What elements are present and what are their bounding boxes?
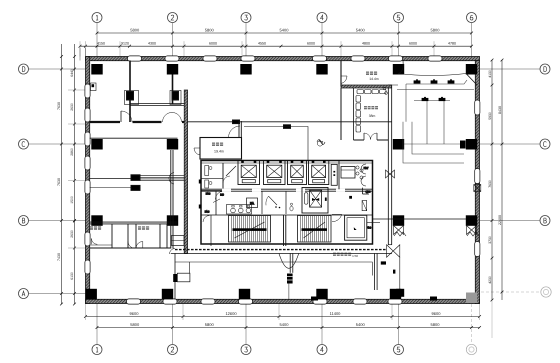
column D6 (466, 64, 477, 75)
window top wall x=172 (165, 56, 179, 61)
ahu room dot (349, 196, 352, 199)
small circles right of desk (356, 166, 359, 169)
east alcove walls (362, 188, 364, 194)
service zone east wall x=390 (388, 85, 391, 245)
machine band marks 2 (267, 160, 270, 163)
svg-text:7630: 7630 (488, 180, 492, 188)
svg-text:5800: 5800 (130, 28, 140, 33)
column A5 (390, 289, 401, 300)
axis line D left (29, 68, 86, 70)
stair 1 handrail (233, 228, 267, 231)
svg-text:4130: 4130 (488, 70, 492, 78)
floor dots (275, 206, 277, 208)
svg-text:12600: 12600 (225, 311, 237, 316)
ceiling device at 434,82 (431, 80, 438, 83)
corridor wall D-zone y=122 (90, 121, 120, 123)
svg-text:6000: 6000 (209, 42, 217, 46)
corridor south wall line (171, 252, 392, 254)
svg-text:FA3: FA3 (206, 192, 211, 195)
lounge south wall y=140 (354, 139, 365, 141)
svg-text:2860: 2860 (70, 148, 74, 156)
elevator shaft 4 (309, 161, 329, 185)
window left wall y=267 (85, 260, 90, 274)
svg-text:6000: 6000 (307, 42, 315, 46)
svg-text:Fb7: Fb7 (364, 166, 369, 170)
window left wall y=239 (85, 232, 90, 246)
window top wall x=248 (241, 56, 255, 61)
grid bubble 2 bottom (168, 345, 178, 355)
pantry room (cha shui jian) (200, 138, 242, 160)
fan room pill (305, 193, 308, 205)
elevator shaft 2 (264, 161, 286, 185)
window bottom wall x=320 (313, 299, 327, 304)
axis line D right (480, 68, 541, 70)
pantry door left arc (194, 148, 200, 155)
column A3 (239, 289, 250, 300)
grid bubble 5 top (394, 13, 404, 23)
window left wall y=115 (85, 108, 90, 122)
toilet door arc (223, 176, 230, 183)
window right wall y=176 (475, 169, 480, 184)
squat wc fixture (290, 206, 293, 211)
svg-text:2630: 2630 (70, 230, 74, 238)
elevator shaft 3 (288, 161, 307, 185)
damper on east service wall upper (386, 170, 395, 178)
axis line B right (480, 220, 541, 222)
window right wall y=107.5 (475, 100, 480, 115)
faint bubble 6 bottom (466, 344, 476, 354)
stair 2 arrow (304, 222, 326, 238)
toilet fixture 2 (205, 180, 209, 188)
svg-text:6000: 6000 (409, 42, 417, 46)
svg-text:4800: 4800 (362, 42, 370, 46)
control room south wall (hatched) (341, 85, 392, 88)
elevator door slot 3 (292, 180, 303, 183)
arc fixtures east edge (361, 164, 366, 174)
svg-text:5400: 5400 (356, 322, 366, 327)
wc partition (285, 191, 287, 214)
column A1 (86, 289, 97, 300)
step detail left (177, 273, 190, 282)
dimension chain top outer (97, 32, 472, 34)
device on duct (381, 261, 386, 264)
svg-text:4550: 4550 (258, 42, 266, 46)
axis line 5 top (398, 23, 400, 57)
svg-text:8430: 8430 (498, 106, 502, 114)
B wall right segment (373, 218, 467, 220)
svg-text:5800: 5800 (431, 322, 441, 327)
dimension chain top inner (80, 45, 472, 47)
dimension chain left inner (74, 44, 76, 304)
window top wall x=210 (203, 56, 217, 61)
riser line to wall (288, 284, 290, 300)
grid bubble B left (19, 216, 29, 226)
svg-text:11400: 11400 (330, 311, 342, 316)
elevator door slot 2 (268, 180, 281, 183)
wall vertical x=171.5 C-to-A (170, 150, 172, 249)
axis line 5 bottom (398, 304, 400, 345)
wall vertical corridor x=172.5 (172, 75, 174, 104)
lobby door leaf diagonal (226, 166, 236, 176)
grid bubble C right (540, 139, 550, 149)
svg-text:2630: 2630 (70, 103, 74, 111)
dimension chain right inner (491, 60, 493, 300)
locker partition x=112 (111, 224, 113, 248)
lounge corner circles (383, 87, 386, 90)
column D1 (91, 64, 102, 75)
beam/track detail at C row (131, 175, 140, 181)
window left wall y=163 (85, 156, 90, 170)
window left wall y=187 (85, 180, 90, 194)
duct pair below corridor SE (374, 254, 376, 290)
grid bubble A left (19, 289, 29, 299)
column D4 (316, 64, 327, 75)
core outline (201, 161, 373, 245)
stair 1 arrow (235, 222, 265, 238)
branch line y=262 (175, 262, 372, 276)
exterior wall top (86, 57, 480, 61)
exterior wall right (475, 61, 479, 304)
window top wall x=358 (351, 56, 365, 61)
big damper at corridor end (387, 245, 400, 258)
damper below column B6 (467, 226, 477, 235)
svg-text:M6: M6 (220, 194, 224, 197)
locker partition x=160 (159, 224, 161, 248)
stair 2 treads (300, 216, 302, 242)
wire into shaft room (367, 222, 380, 224)
column D2 (167, 64, 178, 75)
column B1 (91, 215, 102, 226)
wire horizontal row1 (406, 80, 467, 84)
svg-text:Fb9: Fb9 (367, 227, 372, 230)
locker rooms bottom wall y=248 (90, 247, 171, 249)
axis line 6 top (471, 23, 473, 57)
toilet fixture 1 (205, 166, 209, 176)
wall+door below y121 at x=240 (238, 121, 240, 138)
axis line 1 bottom (96, 304, 98, 345)
FAS box (247, 198, 258, 208)
grid bubble 2 top (168, 13, 178, 23)
window top wall x=395.5 (389, 56, 403, 61)
window bottom wall x=133.5 (127, 299, 141, 304)
wall vertical corridor x=130 (129, 61, 131, 123)
window bottom wall x=395 (388, 299, 402, 304)
grid bubble D right (540, 64, 550, 74)
locker inner ledge (90, 244, 112, 246)
svg-text:5400: 5400 (280, 322, 290, 327)
svg-text:3730: 3730 (488, 236, 492, 244)
svg-text:FA6: FA6 (205, 211, 210, 214)
column B6 (466, 215, 477, 226)
partition y=178.6 left (90, 178, 131, 180)
window left wall y=139 (85, 132, 90, 146)
axis line 1 top (96, 23, 98, 57)
fan hub (312, 198, 319, 201)
grid bubble 4 top (317, 13, 327, 23)
electrical cabinet room2 (170, 91, 181, 105)
lounge sofa column left (356, 96, 361, 103)
column B5 (393, 215, 404, 226)
core toilets divider wall x=223 (222, 163, 224, 191)
dimension chain bottom outer (97, 327, 480, 329)
svg-text:19.4m: 19.4m (214, 150, 224, 154)
wire horizontal row2 (414, 100, 450, 102)
grid bubble B right (540, 216, 550, 226)
shaft box right of lockers (172, 236, 185, 246)
grid bubble 5 bottom (394, 345, 404, 355)
svg-text:5800: 5800 (205, 28, 215, 33)
label locker room 1 (90, 226, 93, 230)
svg-text:14.4m: 14.4m (369, 77, 379, 81)
stair 1 outline (229, 216, 271, 243)
window left wall y=91 (85, 84, 90, 98)
svg-text:38m: 38m (369, 114, 376, 118)
long wire corridor top y=121 (188, 121, 392, 123)
svg-text:4780: 4780 (448, 42, 456, 46)
elevator shaft 1 (238, 161, 260, 185)
washroom sinks (227, 205, 252, 215)
core top inner line (201, 162, 373, 164)
AHU room top: desk (341, 167, 355, 179)
corridor door gaps (222, 189, 231, 192)
svg-text:5800: 5800 (205, 322, 215, 327)
grid bubble 3 bottom (241, 345, 251, 355)
axis line 4 top (321, 23, 323, 57)
svg-text:6440: 6440 (70, 69, 74, 77)
svg-text:22400: 22400 (498, 215, 502, 225)
window top wall x=319.5 (313, 56, 327, 61)
svg-text:9600: 9600 (432, 311, 442, 316)
grid bubble D left (19, 64, 29, 74)
svg-text:9120: 9120 (121, 42, 129, 46)
grid bubble 6 top (467, 13, 477, 23)
toilet partition y=178.3 (201, 177, 223, 179)
elevator car 2 with X (267, 165, 282, 177)
archway curve (279, 254, 299, 269)
column B2 (167, 215, 178, 226)
window top wall x=435 (428, 56, 442, 61)
window bottom wall x=170 (163, 299, 177, 304)
door arc corridor to hall (215, 191, 223, 199)
grid bubble C left (19, 139, 29, 149)
svg-text:4150: 4150 (97, 42, 105, 46)
double door corridor 2 (163, 112, 173, 122)
toilet partition y=190.5 (201, 190, 229, 192)
stair 2 handrail (302, 228, 328, 231)
column C2 (167, 139, 178, 150)
junction box at column C6 (460, 141, 466, 149)
label locker room 2 (138, 226, 141, 230)
elevator door slot 4 (313, 180, 325, 183)
locker partition x=136 (135, 224, 137, 248)
svg-text:5800: 5800 (130, 322, 140, 327)
chamfer corner top right (466, 74, 477, 86)
door arc pantry (229, 126, 241, 138)
lobby floor diagonal (213, 199, 220, 203)
svg-text:5400: 5400 (280, 28, 290, 33)
wire device 2 (284, 125, 291, 129)
svg-text:7630: 7630 (57, 178, 61, 186)
ceiling device at 451,82 (448, 80, 455, 83)
lounge inner wall left x=353 (353, 88, 355, 140)
device left (173, 274, 177, 282)
machine band marks 1 (241, 160, 244, 163)
column C6 (466, 139, 477, 150)
wire y=126.5 to core (244, 127, 308, 161)
column A4 (316, 289, 327, 300)
label pantry (212, 143, 215, 147)
damper right wall upper (474, 185, 481, 192)
wall between stairs (283, 215, 285, 246)
stairwell top wall y=215 (201, 214, 373, 216)
exterior wall left (86, 57, 90, 304)
axis line A left (29, 293, 86, 295)
label lounge (364, 106, 367, 109)
axis line C left (29, 143, 86, 145)
svg-text:7630: 7630 (57, 102, 61, 110)
dimension chain right outer (501, 60, 503, 300)
door leaf+arc corridor 1 (120, 111, 122, 122)
corridor south dashed beam line (175, 249, 387, 251)
column A6 (grey phantom) (466, 293, 477, 304)
wire verticals and cascade (403, 122, 464, 163)
axis line 3 bottom (245, 304, 247, 345)
wall band y=138 column C1 to C2 (90, 137, 178, 139)
small door bottom-left core (203, 216, 210, 223)
svg-text:7430: 7430 (57, 253, 61, 261)
lounge south door double (363, 133, 365, 140)
axis line 2 top (172, 23, 174, 57)
window bottom wall x=360 (353, 299, 367, 304)
column A2 (162, 289, 173, 300)
lounge room: sofa row top (357, 90, 364, 94)
electrical cabinet room1 (125, 91, 139, 105)
svg-text:5800: 5800 (431, 28, 441, 33)
mid core vertical wall x=216 (215, 191, 217, 215)
locker partition x=128 (127, 224, 129, 248)
upper corridor wall y=104.5 (130, 103, 184, 105)
machine band marks 3 (291, 160, 294, 163)
fan box with X (310, 190, 322, 207)
ceiling device at 425,99.5 (422, 98, 429, 101)
damper below column B5 (394, 226, 404, 235)
top-left corner witness lines (85, 48, 87, 57)
grid bubble 1 bottom (92, 345, 102, 355)
wire device 1 (233, 120, 240, 124)
svg-text:6130: 6130 (70, 272, 74, 280)
ceiling curve line (398, 74, 466, 76)
ceiling device at 417,82 (414, 80, 421, 83)
plant symbol (317, 140, 325, 145)
service zone west wall x=186 (184, 90, 187, 254)
core east section wall x=334 (338, 161, 340, 190)
label control room (366, 72, 369, 76)
bottom-east shaft room (345, 215, 367, 240)
svg-text:1:50: 1:50 (352, 254, 358, 258)
svg-text:1500: 1500 (70, 196, 74, 204)
locker door arcs (92, 239, 98, 245)
elevator door slot 1 (242, 180, 255, 183)
device below column D1 (91, 83, 97, 91)
core corridor wall y=192 (201, 188, 373, 190)
axis line 4 bottom (321, 304, 323, 345)
duct device (hatched) (287, 274, 293, 284)
wall B row left y=221 (90, 221, 177, 223)
exterior wall bottom (86, 299, 480, 303)
axis line 2 bottom (172, 304, 174, 345)
column D5 (393, 64, 404, 75)
grid bubble 3 top (241, 13, 251, 23)
landing left of stair1 x=210 (210, 215, 212, 246)
dimension chain left outer (61, 44, 63, 304)
column C5 (393, 139, 404, 150)
control room west wall (340, 61, 342, 87)
window bottom wall x=208 (201, 299, 215, 304)
svg-text:4230: 4230 (488, 276, 492, 284)
svg-text:Qb8: Qb8 (366, 191, 371, 194)
grid bubble 1 top (92, 13, 102, 23)
wall below corridor x=175 (174, 254, 176, 300)
spring door symbol (362, 201, 367, 211)
elevator car 4 with X (312, 165, 326, 177)
window right wall y=249 (475, 242, 480, 257)
entrance duct bottom center (289, 254, 291, 273)
devices on bottom wall (430, 297, 437, 301)
window top wall x=134.5 (128, 56, 142, 61)
door arc to stair (332, 214, 342, 221)
dimension chain bottom inner (86, 316, 480, 318)
axis line 3 top (245, 23, 247, 57)
column D3 (240, 64, 251, 75)
shower door diagonal (269, 196, 278, 205)
svg-text:5400: 5400 (356, 28, 366, 33)
lounge west wall (340, 88, 342, 140)
svg-text:4300: 4300 (148, 42, 156, 46)
axis line C right (480, 143, 541, 145)
svg-text:9600: 9600 (130, 311, 140, 316)
stair 1 treads (231, 216, 233, 242)
control room door (341, 76, 347, 84)
door arc at corridor left (170, 249, 176, 255)
svg-text:5930: 5930 (488, 112, 492, 120)
shower room walls (261, 191, 263, 214)
elevator car 1 with X (241, 165, 256, 177)
elevator car 3 with X (291, 165, 304, 177)
axis line B left (29, 220, 86, 222)
locker partition x=167 (166, 224, 168, 248)
window bottom wall x=245.5 (239, 299, 253, 304)
faint bubble A right (541, 287, 551, 297)
wall ticks on core west wall (199, 180, 202, 184)
machine band marks 4 (312, 160, 315, 163)
stair 2 outline (298, 216, 332, 243)
column C1 (91, 139, 102, 150)
wire down to A wall (399, 258, 401, 290)
duct shaft right of elevators (331, 164, 337, 185)
fan room outline (302, 188, 328, 214)
ceiling device at 442,99.5 (439, 98, 446, 101)
grid bubble 4 bottom (317, 345, 327, 355)
